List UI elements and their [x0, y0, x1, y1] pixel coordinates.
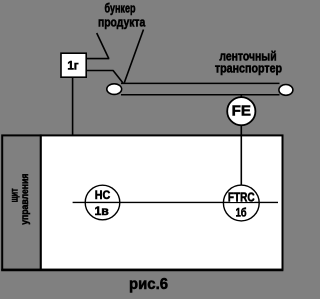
svg-text:НС: НС [95, 188, 111, 202]
svg-text:рис.6: рис.6 [129, 276, 168, 293]
svg-text:1г: 1г [67, 59, 78, 73]
svg-text:транспортер: транспортер [215, 61, 282, 76]
svg-text:FTRC: FTRC [228, 189, 255, 204]
svg-text:управления: управления [19, 174, 31, 225]
svg-text:FE: FE [232, 102, 251, 119]
svg-text:бункер: бункер [105, 2, 136, 16]
svg-text:1в: 1в [94, 204, 109, 218]
svg-text:1б: 1б [236, 205, 247, 219]
svg-text:продукта: продукта [98, 15, 146, 30]
